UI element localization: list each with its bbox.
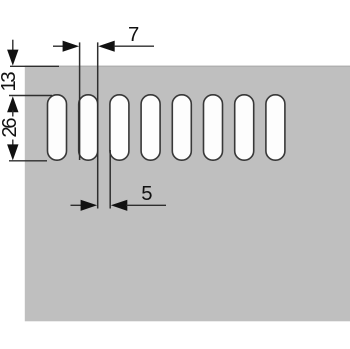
svg-text:7: 7 [128,24,139,46]
dim 5 left tail [71,204,82,206]
slot 4 [141,95,160,160]
svg-text:13: 13 [0,72,20,92]
plate (grey body) [25,66,350,321]
dim 5 right arrow [111,200,128,211]
extension line B (slot2 right edge, top dim to gap dim) [97,42,99,208]
extension line plate-top (left) [10,65,59,67]
slot 7 [235,95,254,160]
dim 13 down arrow [7,50,18,66]
slot 3 [110,95,129,160]
dim 7 right arrow [98,41,115,52]
svg-text:5: 5 [141,183,152,205]
extension line C (slot3 left edge down to gap dim) [109,150,111,209]
dim 26 up arrow [7,96,18,112]
extension line slot-bottom (left) [9,160,47,162]
slot 5 [172,95,191,160]
slot 6 [204,95,223,160]
dim 5 left arrow [81,200,98,211]
slot 8 [266,95,285,160]
plate top edge [25,66,350,67]
dim 7 left tail [53,45,64,47]
dim 26 down arrow [7,144,18,160]
slot 1 [48,95,67,160]
dim 26 line upper segment [12,110,14,116]
dim 7 right tail [114,45,154,47]
svg-text:26: 26 [0,118,21,138]
dim 26 line lower segment [12,140,14,147]
dim 7 left arrow [63,41,80,52]
dim 13 upper tail [12,40,14,52]
extension line A (slot2 left edge, up to width dim) [79,42,81,160]
slot 2 [79,95,98,160]
dim 5 right tail [126,204,166,206]
extension line slot-top (left) [9,95,52,97]
